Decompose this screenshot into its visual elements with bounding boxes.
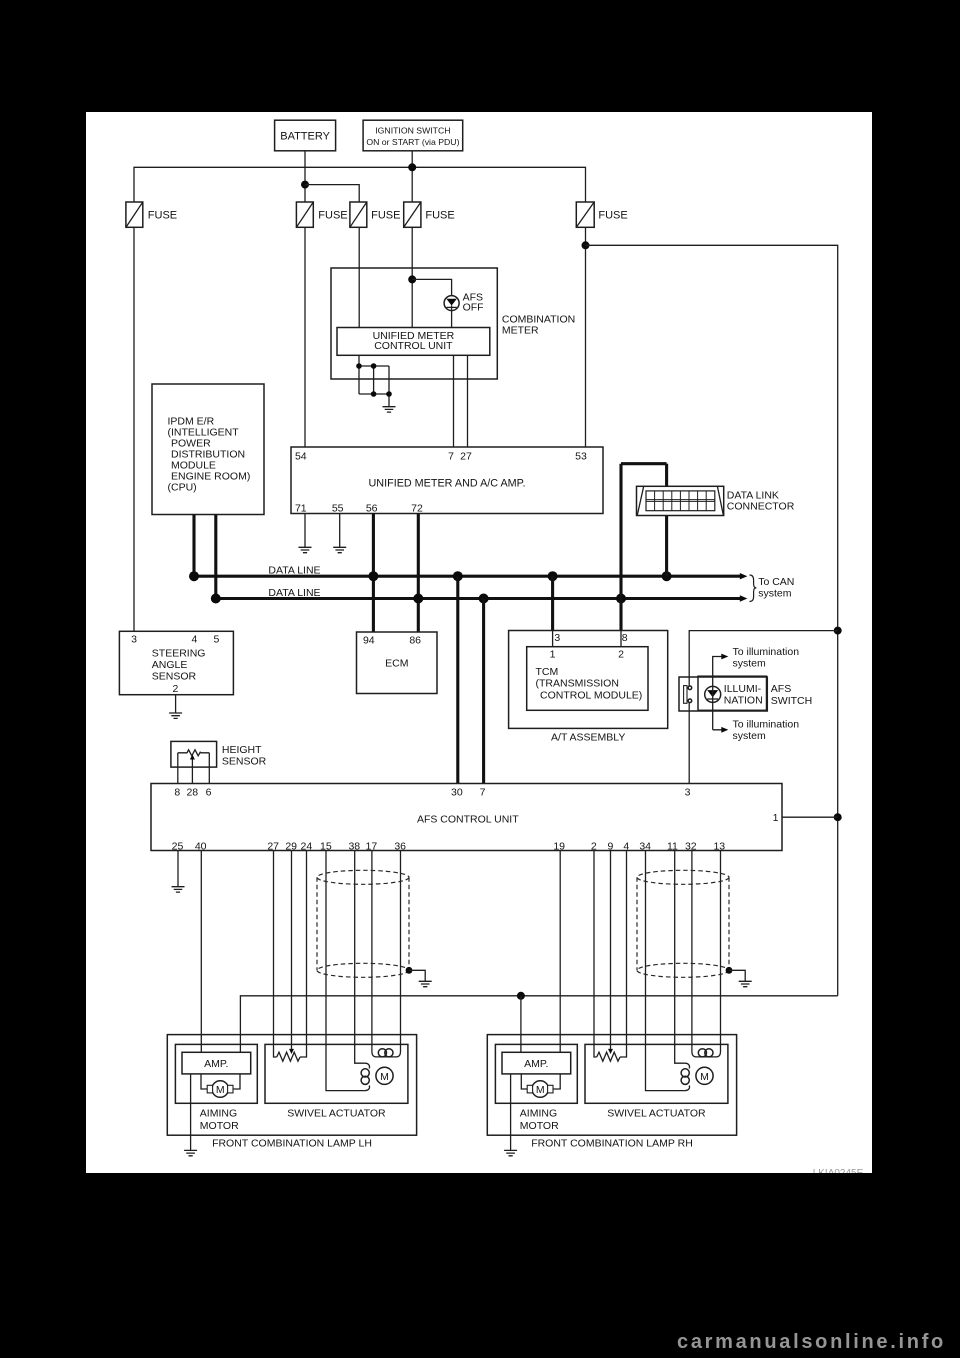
wire amp 56 to ECM 94 (372, 514, 375, 633)
aiming motor RH M3 (527, 1081, 553, 1098)
wire branch to fuse2 (305, 185, 359, 202)
svg-text:OFF: OFF (463, 302, 484, 314)
svg-text:ON or START (via PDU): ON or START (via PDU) (366, 137, 459, 147)
node power rail RH amp (517, 992, 525, 1000)
amp RH (502, 1052, 571, 1074)
svg-text:SENSOR: SENSOR (222, 756, 267, 768)
wire control unit to amp pin 7 (453, 355, 455, 447)
unified meter control unit (337, 328, 490, 356)
svg-text:94: 94 (363, 634, 375, 646)
svg-text:system: system (733, 730, 767, 742)
battery (275, 120, 336, 151)
wire pin 24 to LH sensor (300, 851, 307, 1058)
wire ignition down (411, 151, 413, 202)
A/T assembly box (509, 631, 668, 744)
node dl2 afs7 (479, 594, 489, 604)
svg-text:M: M (536, 1084, 545, 1096)
illumination lamp box (698, 676, 767, 710)
stepping motor RH M4 (696, 1067, 713, 1084)
wire F4 to unified meter control unit (411, 227, 413, 327)
arrow data line 1 (740, 573, 748, 579)
ground shield LH (419, 981, 432, 986)
svg-text:4: 4 (191, 634, 197, 646)
node dl1 afs30 (453, 571, 463, 581)
wire amp LH ground (190, 1074, 192, 1151)
wire SAS pin 2 ground (175, 695, 177, 713)
wire F1 to steering angle sensor pin 3 (133, 227, 135, 631)
wire height sensor pin 6 (208, 753, 210, 784)
wire pin 19 to RH amp (559, 851, 561, 1053)
stepping motor coil B RH (692, 1049, 721, 1057)
unified meter and a/c amp (291, 447, 603, 514)
svg-text:DATA LINE: DATA LINE (268, 564, 320, 576)
svg-text:HEIGHT: HEIGHT (222, 744, 262, 756)
svg-text:STEERING: STEERING (152, 647, 206, 659)
svg-text:M: M (380, 1071, 389, 1083)
label to CAN system (758, 576, 794, 600)
ground amp LH (184, 1150, 197, 1155)
fuse F3 (350, 202, 401, 227)
svg-text:CONNECTOR: CONNECTOR (727, 501, 795, 513)
svg-text:ILLUMI-: ILLUMI- (724, 683, 762, 695)
fuse F4 ignition (404, 202, 455, 227)
svg-text:AMP.: AMP. (524, 1058, 548, 1070)
svg-text:11: 11 (667, 841, 678, 853)
arrow LH wiper (289, 1049, 294, 1054)
IPDM E/R U1 (152, 384, 264, 515)
wire pin 32 to RH coil2 (691, 851, 693, 1052)
wire TCM pin2 stub (620, 631, 622, 647)
svg-text:FUSE: FUSE (371, 209, 400, 221)
svg-text:(CPU): (CPU) (168, 482, 197, 494)
node dl1 tcm (548, 571, 558, 581)
svg-text:5: 5 (213, 634, 219, 646)
svg-text:FRONT COMBINATION LAMP RH: FRONT COMBINATION LAMP RH (531, 1138, 693, 1150)
svg-text:2: 2 (618, 648, 624, 660)
black footer mask (0, 1173, 960, 1358)
fuse F2 battery (296, 202, 347, 227)
node battery branch (301, 181, 309, 189)
node gm4 (386, 391, 392, 397)
ground amp 71 (299, 547, 312, 552)
label to illumination top (733, 646, 800, 670)
wire DLC to data line 2 and TCM pin 8 (619, 464, 622, 631)
svg-text:72: 72 (411, 503, 423, 515)
wire F3 to unified meter control unit (358, 227, 360, 327)
svg-text:71: 71 (295, 503, 307, 515)
wire pin 25 ground (177, 851, 179, 887)
aiming motor LH M1 (207, 1081, 233, 1098)
svg-text:7: 7 (480, 786, 486, 798)
node dl1 ecm (368, 571, 378, 581)
fuse F1 left (126, 202, 177, 227)
wire data line 2 to AFS pin 7 (482, 599, 485, 784)
shield RH (637, 870, 729, 977)
label to illumination bottom (733, 719, 800, 743)
svg-text:MOTOR: MOTOR (200, 1120, 239, 1132)
wire pin 29 to LH wiper (291, 851, 293, 1050)
wire shield RH ground (729, 970, 745, 981)
svg-text:(TRANSMISSION: (TRANSMISSION (536, 678, 619, 690)
wire amp pin 55 ground (339, 514, 341, 548)
svg-text:M: M (700, 1071, 709, 1083)
svg-text:AIMING: AIMING (200, 1107, 237, 1119)
svg-text:FRONT COMBINATION LAMP LH: FRONT COMBINATION LAMP LH (212, 1138, 372, 1150)
stepping motor coil A RH (681, 1063, 689, 1090)
wire F5 to amp pin 53 (585, 227, 587, 447)
position sensor RH resistor (597, 1052, 620, 1061)
wire pin 34 to RH coil (646, 851, 685, 1091)
svg-text:54: 54 (295, 450, 307, 462)
stepping motor coil A LH (361, 1063, 369, 1090)
svg-text:SWIVEL ACTUATOR: SWIVEL ACTUATOR (287, 1107, 386, 1119)
svg-text:ANGLE: ANGLE (152, 659, 188, 671)
ground SAS (169, 713, 182, 718)
svg-text:SENSOR: SENSOR (152, 670, 197, 682)
wire amp RH ground (510, 1074, 512, 1151)
svg-text:BATTERY: BATTERY (280, 131, 330, 143)
arrow illumination top (721, 654, 728, 660)
svg-text:DATA LINE: DATA LINE (268, 587, 320, 599)
svg-text:FUSE: FUSE (318, 209, 347, 221)
node right rail AFS switch (834, 627, 842, 635)
wire pin 13 to RH coil2 (720, 851, 722, 1052)
front combination lamp LH box (167, 1035, 416, 1150)
ignition switch (363, 120, 463, 151)
AFS control unit (151, 784, 782, 851)
svg-text:AIMING: AIMING (520, 1107, 557, 1119)
fuse F5 right (576, 202, 627, 227)
ground amp 55 (333, 547, 346, 552)
node dl2 ecm (413, 594, 423, 604)
svg-text:M: M (216, 1084, 225, 1096)
svg-text:METER: METER (502, 325, 539, 337)
wire DLC to data line 1 (665, 516, 668, 577)
svg-text:To CAN: To CAN (758, 576, 794, 588)
svg-text:3: 3 (131, 634, 137, 646)
ground AFS 25 (172, 887, 185, 892)
swivel actuator LH box (265, 1044, 408, 1119)
node ignition rail (408, 163, 416, 171)
wire illumination to systems (713, 657, 723, 730)
svg-text:FUSE: FUSE (598, 209, 627, 221)
node gm1 (356, 363, 362, 369)
svg-text:AMP.: AMP. (204, 1058, 228, 1070)
wire rail to AFS switch (689, 631, 838, 686)
svg-text:TCM: TCM (536, 666, 559, 678)
svg-text:8: 8 (174, 786, 180, 798)
svg-text:53: 53 (575, 450, 587, 462)
aiming motor LH box (175, 1044, 257, 1132)
wire amp pin 71 ground (304, 514, 306, 548)
svg-text:NATION: NATION (724, 694, 763, 706)
AFS switch SW1 (679, 677, 812, 711)
svg-text:27: 27 (460, 450, 472, 462)
wire pin 11 to RH coil (675, 851, 685, 1064)
node AFS OFF branch (408, 275, 416, 283)
wire battery down (304, 151, 306, 202)
stepping motor coil B LH (372, 1049, 401, 1057)
node dl2 dlc (616, 594, 626, 604)
wire data line 1 to TCM pin 3 (551, 576, 554, 630)
node gm3 (371, 391, 377, 397)
wire IPDM to data line 2 (214, 515, 217, 599)
position sensor LH resistor (277, 1052, 300, 1061)
ground amp RH (504, 1150, 517, 1155)
wire height sensor pin 8 (177, 753, 179, 784)
wire right rail (586, 245, 838, 996)
svg-text:1: 1 (550, 648, 556, 660)
svg-text:A/T ASSEMBLY: A/T ASSEMBLY (551, 732, 625, 744)
svg-text:30: 30 (451, 786, 463, 798)
steering angle sensor (119, 631, 233, 695)
stepping motor LH M2 (376, 1067, 393, 1084)
svg-text:SWIVEL ACTUATOR: SWIVEL ACTUATOR (607, 1107, 706, 1119)
TCM U2 (527, 647, 648, 711)
svg-text:86: 86 (409, 634, 421, 646)
svg-text:AFS: AFS (771, 683, 791, 695)
node gm2 (371, 363, 377, 369)
arrow data line 2 (740, 595, 748, 601)
svg-text:3: 3 (685, 786, 691, 798)
svg-text:13: 13 (713, 841, 725, 853)
wire TCM pin1 stub (552, 631, 554, 647)
wire branch to AFS OFF lamp (412, 279, 451, 295)
wire pin 40 to LH amp (200, 851, 202, 1053)
wire DLC bracket (621, 462, 667, 465)
arrow RH wiper (608, 1049, 613, 1054)
wire IPDM to data line 1 (192, 515, 195, 577)
wire pin 9 to RH wiper (610, 851, 612, 1050)
swivel actuator RH box (585, 1044, 728, 1119)
svg-text:3: 3 (554, 632, 560, 644)
wire data line 1 to AFS pin 30 (456, 576, 459, 783)
node shield RH (726, 967, 733, 974)
node shield LH (406, 967, 413, 974)
wire pin 36 to LH coil2 (400, 851, 402, 1052)
svg-text:FUSE: FUSE (425, 209, 454, 221)
wire pin 27 to LH sensor (274, 851, 277, 1058)
svg-text:2: 2 (172, 683, 178, 695)
height sensor R1 (171, 741, 267, 783)
wire control unit ground mesh (359, 355, 389, 406)
wire power branch RH amp (520, 996, 522, 1053)
wire AFS OFF to control unit (451, 311, 453, 328)
svg-text:To illumination: To illumination (733, 719, 800, 731)
wire amp RH to motor (521, 1074, 560, 1089)
node F5 branch (582, 241, 590, 249)
svg-text:To illumination: To illumination (733, 646, 800, 658)
svg-text:MOTOR: MOTOR (520, 1120, 559, 1132)
wire top rail (134, 167, 586, 202)
svg-text:8: 8 (622, 632, 628, 644)
svg-text:55: 55 (332, 503, 344, 515)
ground meter (383, 407, 396, 412)
wire amp 72 to ECM 86 (417, 514, 420, 633)
aiming motor RH box (495, 1044, 577, 1132)
svg-text:ECM: ECM (385, 657, 408, 669)
svg-text:1: 1 (773, 812, 779, 824)
svg-text:19: 19 (553, 841, 565, 853)
svg-text:6: 6 (206, 786, 212, 798)
wire shield LH ground (409, 970, 425, 981)
svg-text:AFS CONTROL UNIT: AFS CONTROL UNIT (417, 813, 519, 825)
wire power rail to lamp amps (240, 996, 837, 1053)
svg-text:CONTROL UNIT: CONTROL UNIT (374, 340, 453, 352)
node dl2 ipdm (211, 594, 221, 604)
wire AFS switch to AFS pin 3 (688, 703, 690, 784)
node dl1 dlc (662, 571, 672, 581)
brace to CAN (750, 575, 757, 602)
svg-text:CONTROL MODULE): CONTROL MODULE) (540, 689, 642, 701)
wire pin 4 to RH sensor (620, 851, 627, 1058)
wire pin 2 to RH sensor (594, 851, 597, 1058)
wire pin 17 to LH coil2 (371, 851, 373, 1052)
svg-text:32: 32 (685, 841, 697, 853)
data link connector J1 (637, 486, 795, 515)
svg-text:7: 7 (448, 450, 454, 462)
wire data line 2 (216, 597, 741, 600)
svg-text:SWITCH: SWITCH (771, 695, 812, 707)
svg-text:system: system (758, 588, 792, 600)
node right rail pin1 (834, 813, 842, 821)
svg-text:system: system (733, 658, 767, 670)
node dl1 ipdm (189, 571, 199, 581)
combination meter box (331, 268, 575, 379)
wire control unit to amp pin 27 (467, 355, 469, 447)
svg-text:carmanualsonline.info: carmanualsonline.info (677, 1331, 946, 1353)
wire DLC upper stub (665, 464, 668, 487)
svg-text:28: 28 (186, 786, 198, 798)
wire F2 to amp pin 54 (304, 227, 306, 447)
wire pin 1 to rail (782, 816, 838, 818)
wire pin 15 to LH coil (326, 851, 365, 1091)
ground shield RH (739, 981, 752, 986)
shield LH (317, 870, 409, 977)
svg-text:IGNITION SWITCH: IGNITION SWITCH (375, 125, 450, 135)
AFS OFF indicator lamp (444, 292, 484, 314)
wire data line 1 (194, 575, 741, 578)
amp LH (182, 1052, 251, 1074)
svg-text:FUSE: FUSE (148, 209, 177, 221)
svg-text:UNIFIED METER AND A/C AMP.: UNIFIED METER AND A/C AMP. (369, 477, 526, 489)
front combination lamp RH box (487, 1035, 736, 1150)
wire pin 38 to LH coil (355, 851, 365, 1064)
svg-text:56: 56 (366, 503, 378, 515)
ECM (357, 632, 438, 694)
wire amp LH to motor (201, 1074, 240, 1089)
arrow illumination bottom (721, 727, 728, 733)
svg-text:COMBINATION: COMBINATION (502, 313, 575, 325)
